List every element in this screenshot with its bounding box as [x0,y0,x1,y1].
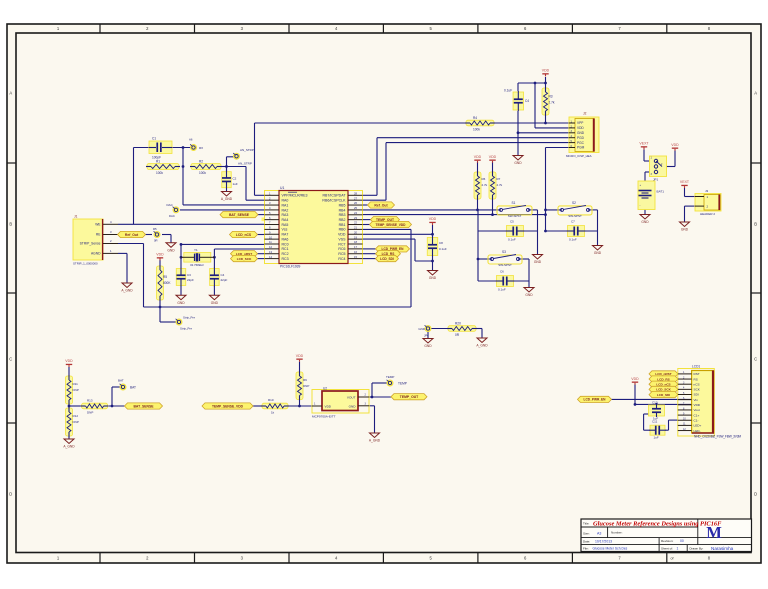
svg-text:RX: RX [199,146,203,150]
svg-text:STRIP_Sense: STRIP_Sense [80,242,101,246]
svg-text:M: M [706,523,722,542]
svg-text:Glucose Meter Sch.Des: Glucose Meter Sch.Des [593,547,628,551]
svg-text:RB1: RB1 [339,223,346,227]
svg-text:RC1: RC1 [282,247,289,251]
svg-text:J3: J3 [705,189,709,193]
svg-text:Date:: Date: [583,539,590,543]
svg-text:VEXT: VEXT [639,142,649,146]
svg-text:LCD_RS: LCD_RS [657,377,669,381]
svg-text:BAT_SENSE: BAT_SENSE [229,213,250,217]
svg-text:RA7: RA7 [282,233,289,237]
svg-text:GND: GND [594,251,602,255]
svg-text:RB0: RB0 [339,228,346,232]
svg-text:SCK: SCK [694,388,701,392]
svg-text:JP6: JP6 [424,334,429,338]
svg-text:0.1uF: 0.1uF [508,238,516,242]
svg-text:PIC16LF1939: PIC16LF1939 [280,264,301,268]
svg-text:2.7k: 2.7k [549,100,555,104]
svg-text:GND: GND [641,220,649,224]
svg-text:GND: GND [167,248,175,252]
svg-text:DNP: DNP [73,420,79,424]
svg-text:Revision:: Revision: [661,539,674,543]
svg-text:Glucose Meter Reference Design: Glucose Meter Reference Designs using PI… [593,521,722,528]
svg-text:GND: GND [681,228,689,232]
svg-text:BAT: BAT [118,379,124,383]
svg-text:GND: GND [534,260,542,264]
svg-text:VDD: VDD [65,359,73,363]
svg-text:SW-SPST: SW-SPST [498,263,512,267]
svg-text:23: 23 [354,216,357,220]
svg-text:RA2: RA2 [282,208,289,212]
svg-text:S2: S2 [572,201,576,205]
svg-text:AN_STRP: AN_STRP [240,148,254,152]
svg-text:Title:: Title: [583,522,590,526]
svg-text:B: B [754,222,757,227]
svg-text:Number:: Number: [611,531,623,535]
svg-text:A_GND: A_GND [121,289,133,293]
svg-text:RC7: RC7 [338,242,345,246]
svg-text:VSS: VSS [338,237,346,241]
svg-text:GND: GND [429,276,437,280]
svg-text:C5: C5 [510,220,514,224]
svg-text:-: - [640,203,641,207]
svg-text:RC0: RC0 [282,242,289,246]
svg-text:VDD: VDD [296,354,304,358]
svg-text:GND: GND [349,405,357,409]
svg-text:AN_STRP: AN_STRP [238,162,252,166]
svg-text:nCS: nCS [694,382,700,386]
svg-text:S1: S1 [512,201,516,205]
svg-text:0.1uF: 0.1uF [569,238,577,242]
svg-text:C: C [754,357,757,362]
svg-text:LED+: LED+ [694,424,702,428]
svg-text:1uF: 1uF [233,182,238,186]
svg-text:S3: S3 [502,250,506,254]
svg-text:A_GND: A_GND [476,344,488,348]
svg-text:VDD: VDD [489,155,497,159]
svg-text:17: 17 [354,245,357,249]
svg-text:R1: R1 [156,159,160,163]
svg-text:VDD: VDD [577,126,584,130]
svg-text:TEMP: TEMP [398,382,407,386]
svg-text:B: B [9,222,12,227]
svg-text:C6: C6 [500,270,504,274]
svg-text:Ref_Out: Ref_Out [374,203,388,207]
svg-text:15: 15 [354,255,357,259]
svg-text:GND: GND [525,293,533,297]
svg-text:C11: C11 [652,419,658,423]
svg-text:R5: R5 [153,227,157,231]
svg-text:NHD_C0220BiZ_FSW_FBW_3V3M: NHD_C0220BiZ_FSW_FBW_3V3M [694,435,741,439]
svg-text:MICRO_ICSP_HEA: MICRO_ICSP_HEA [566,154,592,158]
svg-text:GND: GND [177,301,185,305]
svg-text:18: 18 [354,240,357,244]
svg-text:VEXT: VEXT [680,180,690,184]
svg-text:WE: WE [95,223,101,227]
svg-text:PGM: PGM [577,146,585,150]
svg-text:VDD: VDD [474,155,482,159]
svg-text:1uF: 1uF [654,436,659,440]
svg-text:RB4: RB4 [339,208,346,212]
svg-text:LCD_SDI: LCD_SDI [380,257,394,261]
svg-text:MCP9700A-E/TT: MCP9700A-E/TT [312,414,336,418]
svg-text:VDD: VDD [429,217,437,221]
svg-text:TEMP_SENSE_VDD: TEMP_SENSE_VDD [212,404,244,408]
svg-text:BAT_SENSE: BAT_SENSE [133,404,154,408]
svg-text:GND: GND [514,161,522,165]
svg-text:RB2: RB2 [339,218,346,222]
svg-text:D: D [754,492,757,497]
svg-text:20: 20 [354,230,357,234]
svg-text:R9: R9 [303,378,307,382]
svg-text:RB5: RB5 [339,203,346,207]
svg-text:LCD_PWR_EN: LCD_PWR_EN [584,398,607,402]
svg-text:A6: A6 [189,138,193,142]
svg-text:J1: J1 [74,214,78,218]
svg-text:RC3: RC3 [282,257,289,261]
svg-text:C4: C4 [525,99,529,103]
svg-text:of: of [671,557,674,561]
svg-text:100k: 100k [156,171,163,175]
svg-text:RC2: RC2 [282,252,289,256]
svg-text:0.1uF: 0.1uF [439,247,447,251]
svg-text:0R: 0R [154,239,158,243]
svg-text:R13: R13 [87,399,93,403]
svg-text:C3: C3 [187,273,191,277]
svg-text:PGD: PGD [577,136,585,140]
svg-text:VDD: VDD [325,405,332,409]
svg-text:LCD_nCS: LCD_nCS [236,233,252,237]
svg-text:DAC: DAC [167,203,174,207]
svg-text:Strip_Pre: Strip_Pre [180,327,192,331]
svg-text:26: 26 [354,201,357,205]
svg-text:C8: C8 [439,241,443,245]
svg-text:0.1uF: 0.1uF [498,288,506,292]
svg-text:14: 14 [269,255,272,259]
svg-text:R4: R4 [473,116,477,120]
svg-text:RB7/ICSPDAT: RB7/ICSPDAT [323,194,347,198]
svg-text:VDD: VDD [542,69,550,73]
svg-text:GND: GND [577,131,585,135]
svg-text:10/17/2013: 10/17/2013 [595,539,612,543]
svg-text:LCD_SDI: LCD_SDI [657,393,670,397]
svg-text:R3: R3 [549,94,553,98]
svg-text:HEADER 2: HEADER 2 [700,212,715,216]
svg-text:RST: RST [694,372,700,376]
svg-text:VPP/MCLR/RE3: VPP/MCLR/RE3 [282,194,308,198]
svg-text:File:: File: [583,547,589,551]
svg-text:21: 21 [354,226,357,230]
svg-text:D: D [9,492,12,497]
svg-text:GND: GND [424,344,432,348]
svg-text:C10: C10 [652,400,658,404]
svg-text:VDD: VDD [631,377,639,381]
svg-text:C1: C1 [152,137,156,141]
svg-text:0.1uF: 0.1uF [504,89,512,93]
svg-text:GND: GND [211,301,219,305]
svg-text:RA5: RA5 [282,223,289,227]
svg-text:2.7k: 2.7k [482,183,488,187]
svg-text:RA4: RA4 [282,218,289,222]
svg-text:13: 13 [269,250,272,254]
svg-text:VDD: VDD [338,233,346,237]
svg-text:GND: GND [418,327,426,331]
svg-text:28: 28 [354,192,357,196]
svg-text:0R: 0R [455,333,460,337]
svg-text:Vss: Vss [282,228,288,232]
svg-text:LCD1: LCD1 [692,364,700,368]
svg-text:RS: RS [694,377,698,381]
svg-text:R7: R7 [497,177,501,181]
svg-text:R6: R6 [482,177,486,181]
svg-text:BAT: BAT [130,386,136,390]
svg-text:C2: C2 [233,177,237,181]
svg-text:AGND: AGND [91,252,101,256]
svg-text:A_GND: A_GND [63,445,75,449]
svg-text:00: 00 [680,539,684,543]
svg-text:25: 25 [354,206,357,210]
svg-text:A3: A3 [597,532,601,536]
svg-text:R11: R11 [73,382,79,386]
svg-text:DNP: DNP [87,411,93,415]
svg-text:100k: 100k [473,128,480,132]
svg-text:C: C [9,357,12,362]
svg-text:19: 19 [354,235,357,239]
svg-text:A: A [754,91,757,96]
svg-text:A_GND: A_GND [221,197,233,201]
svg-text:Y1: Y1 [194,248,198,252]
svg-text:2.7k: 2.7k [497,183,503,187]
svg-text:1k: 1k [271,411,275,415]
svg-text:RC5: RC5 [338,252,345,256]
svg-text:RB6/ICSPCLK: RB6/ICSPCLK [322,199,346,203]
svg-text:22: 22 [354,221,357,225]
svg-text:R20: R20 [455,321,461,325]
svg-text:RE: RE [96,233,101,237]
svg-text:12: 12 [269,245,272,249]
svg-text:VDD: VDD [671,143,679,147]
svg-text:SW-SPST: SW-SPST [508,214,522,218]
svg-text:R10: R10 [268,398,274,402]
svg-text:RA1: RA1 [282,203,289,207]
svg-text:VPP: VPP [577,121,583,125]
svg-text:1: 1 [677,547,679,551]
svg-text:DNP: DNP [73,388,79,392]
svg-text:32.768kHz: 32.768kHz [190,263,204,267]
svg-text:TEMP_SENSE_VDD: TEMP_SENSE_VDD [376,223,407,227]
svg-text:10: 10 [269,235,272,239]
svg-text:LED-: LED- [694,429,701,433]
svg-text:R2: R2 [199,159,203,163]
svg-text:100k: 100k [199,171,206,175]
svg-text:DAC: DAC [169,214,175,218]
svg-text:A_GND: A_GND [369,439,381,443]
svg-text:Narasimha: Narasimha [711,546,734,551]
svg-text:R5: R5 [163,275,167,279]
svg-text:16: 16 [354,250,357,254]
svg-text:27: 27 [354,196,357,200]
svg-text:TEMP: TEMP [386,375,394,379]
svg-text:STRIP_1_0000000: STRIP_1_0000000 [73,262,98,266]
svg-text:RA3: RA3 [282,213,289,217]
svg-text:SW-SPST: SW-SPST [568,214,582,218]
svg-text:PGC: PGC [577,141,585,145]
svg-text:U2: U2 [323,386,327,390]
svg-text:RA0: RA0 [282,199,289,203]
svg-text:800K: 800K [163,281,171,285]
svg-text:RA6: RA6 [282,237,289,241]
svg-text:C4: C4 [221,273,225,277]
svg-text:TEMP_OUT: TEMP_OUT [400,395,419,399]
svg-text:Size:: Size: [583,532,590,536]
svg-text:R12: R12 [73,414,79,418]
svg-text:24: 24 [354,211,357,215]
svg-text:22pF: 22pF [187,278,194,282]
svg-text:RB3: RB3 [339,213,346,217]
svg-text:DNP: DNP [303,384,309,388]
svg-text:Ref_Out: Ref_Out [125,233,139,237]
svg-text:C1+: C1+ [694,413,700,417]
svg-text:C1-: C1- [694,418,699,422]
svg-text:VOUT: VOUT [347,396,356,400]
svg-text:J2: J2 [583,112,587,116]
svg-text:22pF: 22pF [221,278,228,282]
svg-text:Drawn By:: Drawn By: [690,546,704,550]
svg-text:Vout: Vout [694,408,700,412]
svg-text:VDD: VDD [156,253,164,257]
svg-text:Sheet of:: Sheet of: [661,546,673,550]
svg-text:Vin: Vin [694,398,699,402]
svg-text:VDD: VDD [694,403,701,407]
svg-text:SDI: SDI [694,393,699,397]
svg-text:BAT1: BAT1 [657,190,665,194]
svg-text:C7: C7 [571,220,575,224]
svg-text:Strip_Pre: Strip_Pre [183,315,195,319]
svg-text:RC6: RC6 [338,247,345,251]
svg-text:RC4: RC4 [338,257,345,261]
svg-text:U1: U1 [280,186,284,190]
svg-text:LCD_SCK: LCD_SCK [237,257,252,261]
svg-text:A: A [9,91,12,96]
